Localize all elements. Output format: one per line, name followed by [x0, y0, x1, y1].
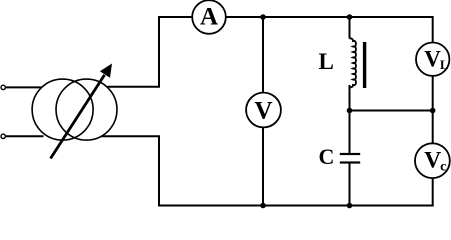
svg-text:V: V [254, 97, 272, 124]
svg-text:L: L [319, 49, 334, 74]
svg-text:A: A [200, 3, 218, 30]
svg-text:C: C [319, 144, 335, 169]
